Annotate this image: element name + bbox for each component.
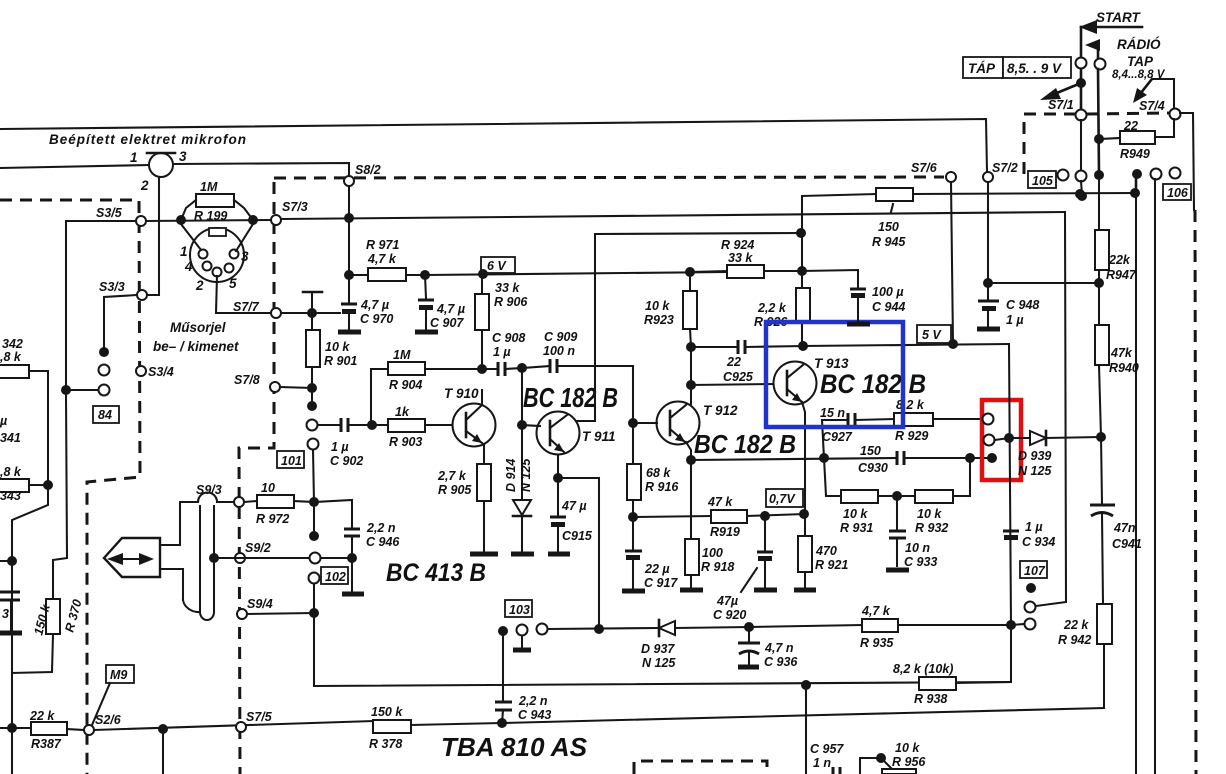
wire feedback column [801,196,803,346]
svg-text:1 n: 1 n [813,756,831,770]
svg-text:R949: R949 [1120,147,1150,161]
svg-text:R 904: R 904 [389,378,422,392]
switch S7/2 [983,161,1018,182]
resistor R940 47k [1095,325,1139,437]
node D939 cathode junction [1096,432,1106,442]
switch S9/4 [237,597,273,619]
capacitor C934 1u [1003,520,1055,549]
resistor R949 22 [1099,119,1174,161]
node C946/S9/2 junction [347,553,357,563]
svg-text:T 910: T 910 [444,386,479,401]
node left bus top [7,556,17,566]
svg-text:R 901: R 901 [324,354,357,368]
node C943 bottom [497,718,507,728]
switch S7/5 [236,710,273,732]
svg-text:2: 2 [195,278,204,293]
capacitor C936 4,7n [738,627,798,669]
node R916 bottom [628,512,638,522]
switch S7/1 arm [1040,69,1086,112]
connector 84 circle a [99,365,110,376]
svg-text:1: 1 [130,150,138,165]
svg-text:106: 106 [1167,186,1189,200]
transistor T912 [657,402,739,445]
connector 101 circle b [308,439,319,503]
svg-text:,8 k: ,8 k [0,350,22,364]
svg-text:S7/3: S7/3 [282,200,308,214]
wire S3/5 left drop [66,221,136,385]
switch S7/6 [911,161,956,182]
svg-text:4,7 n: 4,7 n [764,641,794,655]
svg-text:3: 3 [2,607,9,621]
svg-text:C941: C941 [1112,537,1142,551]
svg-text:S8/2: S8/2 [355,163,381,177]
switch S9/2 [235,541,271,563]
ground under R905 [470,552,498,557]
node S7/8 junction [307,383,317,393]
svg-text:R 935: R 935 [860,636,894,650]
node R935 end [1006,620,1016,630]
svg-text:S7/2: S7/2 [992,161,1018,175]
svg-text:470: 470 [815,544,837,558]
capacitor C943 2,2n [495,635,551,723]
resistor R923 10k [644,272,697,347]
svg-text:R 924: R 924 [721,238,754,252]
svg-text:be– / kimenet: be– / kimenet [153,339,239,354]
ground under R921 [794,588,816,593]
svg-text:S7/6: S7/6 [911,161,938,175]
svg-text:S9/2: S9/2 [245,541,271,555]
svg-text:4,7 k: 4,7 k [367,252,397,266]
wire microphone line [0,165,149,168]
svg-text:S9/4: S9/4 [247,597,273,611]
node S7/3 x S8/2 rail [344,213,354,223]
svg-text:D 939: D 939 [1018,449,1051,463]
svg-text:R919: R919 [710,525,740,539]
svg-text:22: 22 [726,355,741,369]
svg-text:343: 343 [0,489,21,503]
wire drop from bus [162,729,164,774]
svg-text:R 905: R 905 [438,483,472,497]
svg-text:4,7 k: 4,7 k [861,604,891,618]
wire radio rail down [1098,69,1099,174]
node 5V S7/6 drop [948,339,958,349]
transistor T913 [774,356,850,405]
capacitor C941 47n [1090,437,1142,604]
connector circle D939 feed [984,435,1010,446]
svg-text:3: 3 [241,249,249,264]
switch S7/8 [234,373,280,392]
svg-text:,8 k: ,8 k [0,465,22,479]
resistor R905 2,7k [437,464,491,551]
wire 5V rail [803,344,1009,346]
svg-text:R 931: R 931 [840,521,873,535]
wire S3/5 rail down to R370 [53,395,67,599]
wire C948 branch to R947 node [988,282,1099,284]
wire S9/4 line to bottom bus A [247,613,1011,686]
red highlight box [982,400,1021,480]
resistor R931 10k [824,458,915,535]
svg-text:47n: 47n [1113,521,1136,535]
svg-text:22 µ: 22 µ [644,562,670,576]
label 101 box [277,451,304,468]
ground under C920 [754,588,777,593]
svg-text:150: 150 [878,220,899,234]
switch S2/6 [84,713,122,735]
wire C909 to T912 base [632,366,634,464]
blue highlight box [766,322,903,427]
wire S7/6 drop to 5V [951,182,953,344]
wire C930 line [691,458,897,460]
svg-text:Beépített elektret mikrofo: Beépített elektret mikrofon [49,132,247,147]
svg-text:R 932: R 932 [915,521,948,535]
svg-text:R923: R923 [644,313,674,327]
wire R935 line continue [749,625,862,627]
svg-text:341: 341 [0,431,21,445]
wire DIN pin2 to S7/7 line [216,276,271,313]
svg-text:R947: R947 [1106,268,1137,282]
connector 102 pin stub [309,502,319,541]
svg-text:BC 182 B: BC 182 B [820,369,926,399]
connector 101 pin dot [307,388,317,411]
svg-text:R 921: R 921 [815,558,848,572]
connector circle start a [1076,58,1087,69]
resistor R387 22k [0,709,84,751]
svg-text:S3/4: S3/4 [148,365,174,379]
svg-text:4,7 µ: 4,7 µ [436,302,465,316]
resistor R901 10k [306,313,357,388]
connector 102 circle a [310,553,321,564]
wire 103 line to D937 [548,628,658,629]
svg-text:8,5. . 9 V: 8,5. . 9 V [1007,61,1062,76]
wire long rail B right [1154,179,1156,774]
resistor R971 4,7k [366,238,406,281]
svg-text:2: 2 [140,178,149,193]
svg-text:BC 182 B: BC 182 B [523,382,618,413]
node S9/4 junction [309,608,319,618]
node D914 base tap [517,420,527,430]
node T910 collector junction [477,364,487,374]
svg-text:S2/6: S2/6 [95,713,122,727]
node bus 193 a [1075,189,1085,199]
capacitor C902 1u [318,418,388,468]
label START with arrow [1079,10,1142,57]
capacitor C933 10n [889,496,937,569]
switch S7/4 arm [1133,79,1174,113]
svg-text:S7/7: S7/7 [233,300,260,314]
connector 103 circle a with ground [513,625,531,651]
svg-text:R 916: R 916 [645,480,679,494]
ground under C948 [977,327,1000,332]
svg-text:M9: M9 [110,668,127,682]
connector row filled pin c [1094,170,1104,180]
svg-text:BC 413 B: BC 413 B [386,559,486,587]
node C927 riser [819,453,829,463]
wire R935 end to 107 [1011,624,1024,625]
terminal bar above R901 [303,292,322,313]
svg-text:10 k: 10 k [917,507,942,521]
svg-text:T 912: T 912 [703,403,738,418]
connector row filled pin d with stub [1132,169,1142,193]
label 107 box [1020,561,1047,578]
svg-text:2,7 k: 2,7 k [437,469,467,483]
wire S7/7 to R901 column [281,312,340,314]
svg-text:1 µ: 1 µ [1025,520,1043,534]
svg-text:10 k: 10 k [843,507,868,521]
connector 103 pin dot [498,626,508,636]
resistor R904 1M [371,348,482,425]
svg-text:100 µ: 100 µ [872,285,904,299]
wire drop from bus A [805,685,807,774]
node T912 emitter / C930 line [686,455,696,465]
node R199 right [248,215,258,225]
wire 6V rail [425,272,727,275]
capacitor C920 47u [713,516,773,622]
wire head upper to S9/3 [160,502,198,545]
ground under C907 [415,330,438,335]
node C902 right junction [367,420,377,430]
svg-text:C 970: C 970 [360,312,393,326]
svg-text:10 k: 10 k [325,340,350,354]
DIN connector socket [180,228,249,293]
svg-text:6 V: 6 V [487,259,507,273]
svg-text:C 902: C 902 [330,454,363,468]
label TAP voltage boxes [963,57,1071,78]
svg-text:107: 107 [1024,564,1046,578]
svg-text:33 k: 33 k [728,251,753,265]
resistor R924 33k [690,238,802,278]
dashed box top right [1024,114,1076,174]
svg-text:C 933: C 933 [904,555,937,569]
svg-text:15 n: 15 n [820,406,845,420]
svg-text:C 943: C 943 [518,708,551,722]
node C925 left / T912 collector [686,342,696,352]
switch S9/3 [196,483,244,507]
left column: resistor R342 6,8k [0,337,48,485]
wire R199 right to DIN pin3 [236,224,253,251]
node C944 branch [801,270,803,272]
svg-text:22k: 22k [1108,253,1131,267]
svg-text:103: 103 [509,603,530,617]
ground under C944 [847,322,870,327]
svg-text:R 938: R 938 [914,692,947,706]
svg-text:S3/3: S3/3 [99,280,125,294]
svg-text:RÁDIÓ: RÁDIÓ [1117,37,1161,52]
node R199 left [176,215,186,225]
svg-text:START: START [1096,10,1142,25]
capacitor C930 150 [858,444,988,475]
wire S7/8 to node [280,387,312,388]
capacitor C909 100n [522,330,633,373]
resistor R906 33k [475,274,528,369]
dashed S8/2 net line [274,177,944,178]
svg-text:10 k: 10 k [895,741,920,755]
svg-text:C 948: C 948 [1006,298,1039,312]
node S9/2 cable tap [209,553,219,563]
label 106 box [1163,184,1191,200]
microphone M1 [130,149,187,193]
resistor R343 6,8k [0,465,48,503]
svg-text:1M: 1M [200,180,218,194]
connector row circle f [1170,168,1181,179]
svg-text:8,2 k (10k): 8,2 k (10k) [893,662,953,676]
connector 103 circle b [537,624,548,635]
wire long rail A right [1135,193,1137,774]
svg-text:5 V: 5 V [922,328,942,342]
connector 101 circle a [307,420,318,431]
svg-text:µ: µ [0,414,7,428]
resistor R942 22k [1058,604,1112,708]
svg-text:R 918: R 918 [701,560,734,574]
svg-text:C 944: C 944 [872,300,905,314]
capacitor C908 1u [482,331,525,376]
node R931/R932 C933 [892,491,902,501]
node bus A junction [801,680,811,690]
svg-text:2,2 n: 2,2 n [518,694,548,708]
node C948 branch [983,278,993,288]
svg-text:N 125: N 125 [642,656,676,670]
connector 107 circle b [1025,619,1036,630]
svg-text:100 n: 100 n [543,344,575,358]
svg-text:105: 105 [1032,174,1054,188]
transistor T911 [537,412,616,455]
wire bottom bus B [94,721,373,730]
node R972 right [309,497,319,507]
connector pin dot C930 end [987,453,997,463]
resistor R938 8,2k [893,625,1011,706]
svg-text:10 k: 10 k [645,299,670,313]
transistor T910 [444,386,496,447]
svg-text:C 907: C 907 [430,316,464,330]
node bus 193 b [1130,188,1140,198]
node R947 bottom [1094,278,1104,288]
svg-text:47 k: 47 k [707,495,733,509]
connector 107 circle a [1025,212,1067,613]
resistor R921 470 [798,536,848,587]
switch S3/3 [99,280,147,300]
resistor R199 1M bridging DIN [181,180,253,223]
wire mic to S8/2 corner [173,163,349,176]
svg-text:D 937: D 937 [641,642,675,656]
wire T912 base [633,422,657,424]
svg-text:150 k: 150 k [371,705,403,719]
resistor R378 150k [369,705,1104,751]
svg-text:C 908: C 908 [492,331,525,345]
wire 5V drop column [1009,344,1011,625]
svg-text:R 906: R 906 [494,295,528,309]
svg-text:102: 102 [325,570,346,584]
wire T912 emitter column [686,442,691,539]
node 6V line left [420,270,430,280]
node 103 line junction [594,624,604,634]
capacitor C917 22u [625,517,678,590]
svg-text:S3/5: S3/5 [96,206,123,220]
connector row circle e [1151,169,1162,180]
svg-text:68 k: 68 k [646,466,671,480]
capacitor C907 4,7u [418,275,465,330]
wire R342 column jog down [12,485,48,774]
svg-text:R 956: R 956 [892,755,926,769]
svg-text:1 µ: 1 µ [331,440,349,454]
connector circle start b [1095,59,1106,70]
label 103 box [505,600,532,617]
svg-text:S7/5: S7/5 [246,710,273,724]
svg-text:C 957: C 957 [810,742,844,756]
svg-text:S7/4: S7/4 [1139,99,1165,113]
svg-text:S7/1: S7/1 [1048,98,1074,112]
label M9 box with callout [92,665,134,725]
ground under R918 [680,588,703,593]
ground under C946 [342,592,364,597]
resistor R935 4,7k [860,604,1011,650]
svg-text:47µ: 47µ [716,594,738,608]
capacitor C925 22 [691,340,803,384]
svg-text:4: 4 [184,259,193,274]
svg-text:R 903: R 903 [389,435,422,449]
ground under C933 [886,568,909,573]
resistor R945 150 [872,188,1135,249]
wire 84 to S3/5 rail [66,389,98,391]
connector 107 pin dot [1026,583,1036,593]
resistor R972 10 [244,481,314,526]
wire R199 left to DIN pin1 [181,224,201,250]
svg-text:342: 342 [2,337,23,351]
ground under C936 [738,665,759,670]
svg-text:2,2 k: 2,2 k [757,301,787,315]
svg-text:N 125: N 125 [519,458,533,492]
switch S7/7 [233,300,281,318]
node R932 riser top [965,453,975,463]
ground under C917 [622,589,645,594]
resistor R370 150k [12,598,85,673]
svg-text:101: 101 [281,454,302,468]
svg-text:R 378: R 378 [369,737,402,751]
svg-text:2,2 n: 2,2 n [366,521,396,535]
ground under C970 [338,330,361,335]
node T913 collector 5V [798,341,808,351]
svg-text:TBA 810 AS: TBA 810 AS [441,732,588,762]
svg-text:C915: C915 [562,529,593,543]
svg-text:TÁP: TÁP [968,61,996,76]
switch S3/4 [136,365,174,379]
diode D914 N125 [504,368,533,551]
dashed S3 vertical [0,200,140,774]
diode D939 N125 [1009,431,1100,478]
svg-text:1k: 1k [395,405,410,419]
svg-text:47k: 47k [1110,346,1133,360]
connector 84 pin dot [99,347,109,357]
wire top rail to S7/2 [0,119,987,172]
node R906 top [478,269,488,279]
node T911 emitter/C915 [553,473,563,483]
label 84 box [93,406,119,423]
svg-text:Műsorjel: Műsorjel [170,320,226,335]
svg-text:4,7 µ: 4,7 µ [360,298,389,312]
wire S9/2 line [214,557,352,559]
svg-text:3: 3 [179,149,187,164]
wire T913 base line [691,384,774,385]
svg-text:C 909: C 909 [544,330,577,344]
node T912 base junction [628,418,638,428]
svg-text:C 946: C 946 [366,535,400,549]
svg-text:T 911: T 911 [582,429,616,444]
capacitor C946 2,2n [314,500,400,591]
node R901 top junction [307,308,317,318]
node D939 anode [1004,433,1014,443]
wire S7/2 drop to C948 [987,182,989,301]
wire S7/1 rail down [1080,120,1082,172]
diode D937 N125 [641,620,749,670]
svg-text:22: 22 [1123,119,1138,133]
